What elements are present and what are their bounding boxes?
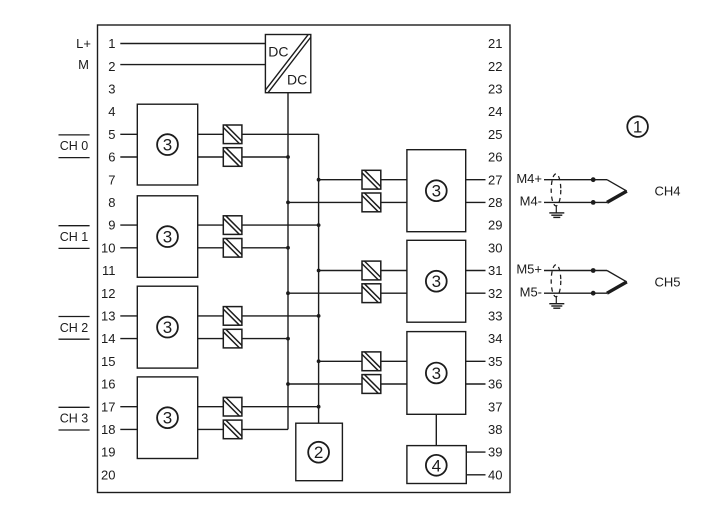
- svg-text:7: 7: [108, 172, 115, 187]
- svg-text:8: 8: [108, 195, 115, 210]
- svg-text:1: 1: [108, 36, 115, 51]
- svg-text:3: 3: [163, 228, 172, 247]
- svg-text:24: 24: [488, 104, 502, 119]
- svg-text:3: 3: [163, 318, 172, 337]
- svg-text:34: 34: [488, 331, 502, 346]
- svg-text:3: 3: [108, 82, 115, 97]
- svg-text:3: 3: [432, 272, 441, 291]
- svg-text:28: 28: [488, 195, 502, 210]
- svg-text:22: 22: [488, 59, 502, 74]
- svg-text:CH 0: CH 0: [60, 139, 89, 153]
- svg-text:26: 26: [488, 150, 502, 165]
- svg-text:15: 15: [101, 354, 115, 369]
- svg-text:36: 36: [488, 377, 502, 392]
- svg-text:30: 30: [488, 240, 502, 255]
- svg-text:11: 11: [102, 263, 116, 278]
- svg-text:29: 29: [488, 218, 502, 233]
- svg-text:M: M: [78, 57, 89, 72]
- svg-text:M5-: M5-: [520, 284, 542, 299]
- svg-text:37: 37: [488, 399, 502, 414]
- svg-text:13: 13: [101, 309, 115, 324]
- svg-text:4: 4: [108, 104, 115, 119]
- svg-text:32: 32: [488, 286, 502, 301]
- svg-text:17: 17: [101, 399, 115, 414]
- svg-text:21: 21: [488, 36, 502, 51]
- svg-text:3: 3: [432, 364, 441, 383]
- svg-text:2: 2: [108, 59, 115, 74]
- svg-text:33: 33: [488, 309, 502, 324]
- svg-text:6: 6: [108, 150, 115, 165]
- svg-text:20: 20: [101, 467, 115, 482]
- svg-text:CH 3: CH 3: [60, 412, 89, 426]
- svg-text:35: 35: [488, 354, 502, 369]
- svg-text:27: 27: [488, 172, 502, 187]
- svg-text:12: 12: [101, 286, 115, 301]
- svg-text:10: 10: [101, 240, 115, 255]
- svg-text:3: 3: [163, 409, 172, 428]
- svg-text:CH4: CH4: [655, 184, 681, 199]
- svg-text:40: 40: [488, 467, 502, 482]
- svg-text:14: 14: [101, 331, 115, 346]
- svg-text:M4-: M4-: [520, 194, 542, 209]
- svg-text:L+: L+: [76, 36, 91, 51]
- svg-text:19: 19: [101, 445, 115, 460]
- svg-text:25: 25: [488, 127, 502, 142]
- svg-text:23: 23: [488, 82, 502, 97]
- svg-text:9: 9: [108, 218, 115, 233]
- svg-text:5: 5: [108, 127, 115, 142]
- svg-text:CH 2: CH 2: [60, 321, 89, 335]
- svg-text:2: 2: [314, 443, 323, 462]
- svg-text:16: 16: [101, 377, 115, 392]
- svg-text:CH 1: CH 1: [60, 230, 89, 244]
- svg-text:31: 31: [488, 263, 502, 278]
- svg-text:38: 38: [488, 422, 502, 437]
- svg-text:4: 4: [432, 456, 441, 475]
- svg-text:3: 3: [432, 182, 441, 201]
- svg-text:M4+: M4+: [516, 171, 542, 186]
- svg-text:M5+: M5+: [516, 262, 542, 277]
- svg-text:39: 39: [488, 445, 502, 460]
- svg-text:3: 3: [163, 136, 172, 155]
- svg-text:CH5: CH5: [655, 275, 681, 290]
- svg-text:1: 1: [633, 118, 642, 137]
- svg-text:DC: DC: [287, 72, 307, 88]
- svg-text:DC: DC: [268, 44, 288, 60]
- svg-text:18: 18: [101, 422, 115, 437]
